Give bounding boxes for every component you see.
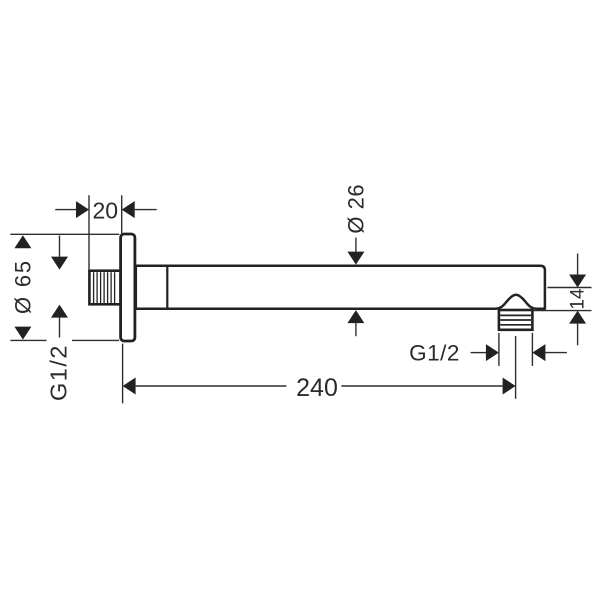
dimension 20: left arrow xyxy=(76,201,89,218)
dimension 20: left leader xyxy=(55,209,76,211)
dimension 20: right leader xyxy=(135,209,157,211)
svg-text:14: 14 xyxy=(567,288,588,310)
outlet thread lines xyxy=(500,315,531,324)
dimension Ø26: up arrow at tube bottom xyxy=(347,310,364,323)
nipple hatch lines xyxy=(94,272,115,303)
dimension Ø26: lower tail xyxy=(355,323,357,336)
dimension Ø65: up arrow xyxy=(14,235,31,248)
svg-text:G1/2: G1/2 xyxy=(46,344,72,401)
dimension 14: upper tail xyxy=(577,254,579,275)
dimension G1/2 left: upper tail xyxy=(59,236,61,257)
dimension 240: left line segment xyxy=(136,385,287,387)
dimension 240: right line segment xyxy=(341,385,502,387)
dimension 20: value text xyxy=(93,198,119,224)
dimension Ø26: upper tail xyxy=(355,238,357,253)
dimension G1/2 left: text background xyxy=(47,339,73,400)
dimension 14: value text (rotated) xyxy=(567,288,588,310)
dimension G1/2 left: value text (rotated) xyxy=(46,344,72,401)
dimension 14: down arrow xyxy=(569,275,586,288)
dimension G1/2 left: down arrow at nipple top xyxy=(51,257,68,270)
dimension G1/2 left: up arrow at nipple bottom xyxy=(51,305,68,318)
dimension G1/2 bottom: right-pointing arrow xyxy=(486,344,499,361)
dimension 240: left arrow xyxy=(123,378,136,395)
dimension 14: lower tail xyxy=(577,324,579,346)
dimension 14: up arrow xyxy=(569,311,586,324)
dimension G1/2 bottom: left extension line xyxy=(498,333,500,366)
dimension Ø26: down arrow at tube top xyxy=(347,252,364,265)
shower arm tube with outlet dome xyxy=(136,266,545,309)
dimension Ø26: value text (rotated) xyxy=(344,184,369,234)
dimension 240: value text xyxy=(296,374,338,402)
svg-text:240: 240 xyxy=(296,374,338,402)
dimension 240: left extension line xyxy=(122,344,124,404)
dimension 20: extension line at flange left xyxy=(121,195,123,237)
wall thread nipple G1/2 xyxy=(89,271,120,305)
dimension 20: right arrow xyxy=(122,201,135,218)
dimension G1/2 bottom: value text xyxy=(409,340,460,365)
svg-text:20: 20 xyxy=(93,198,119,224)
dimension 240: right arrow at outlet center xyxy=(503,378,516,395)
dimension 14: lower extension line xyxy=(533,310,592,312)
dimension G1/2 left: lower tail xyxy=(59,318,61,338)
dimension G1/2 bottom: right extension line xyxy=(531,333,533,366)
svg-text:G1/2: G1/2 xyxy=(409,340,460,365)
svg-text:Ø 26: Ø 26 xyxy=(344,184,369,234)
dimension Ø65: down arrow xyxy=(14,327,31,340)
wall flange xyxy=(121,234,135,341)
dimension G1/2 bottom: leader from text xyxy=(471,352,487,354)
dimension 240: outlet center extension line xyxy=(515,336,517,399)
dimension 20: extension line at nipple left xyxy=(88,195,90,269)
svg-text:Ø 65: Ø 65 xyxy=(10,259,35,314)
dimension G1/2 bottom: right leader xyxy=(545,352,567,354)
dimension Ø65: top extension line xyxy=(10,233,119,235)
dimension 14: upper extension line xyxy=(547,287,591,289)
dimension G1/2 bottom: left-pointing arrow xyxy=(532,344,545,361)
tube joint line xyxy=(166,267,168,308)
dimension Ø65: bottom extension line xyxy=(10,339,119,341)
outlet thread G1/2 xyxy=(499,310,533,330)
dimension Ø65: value text (rotated) xyxy=(10,259,35,314)
